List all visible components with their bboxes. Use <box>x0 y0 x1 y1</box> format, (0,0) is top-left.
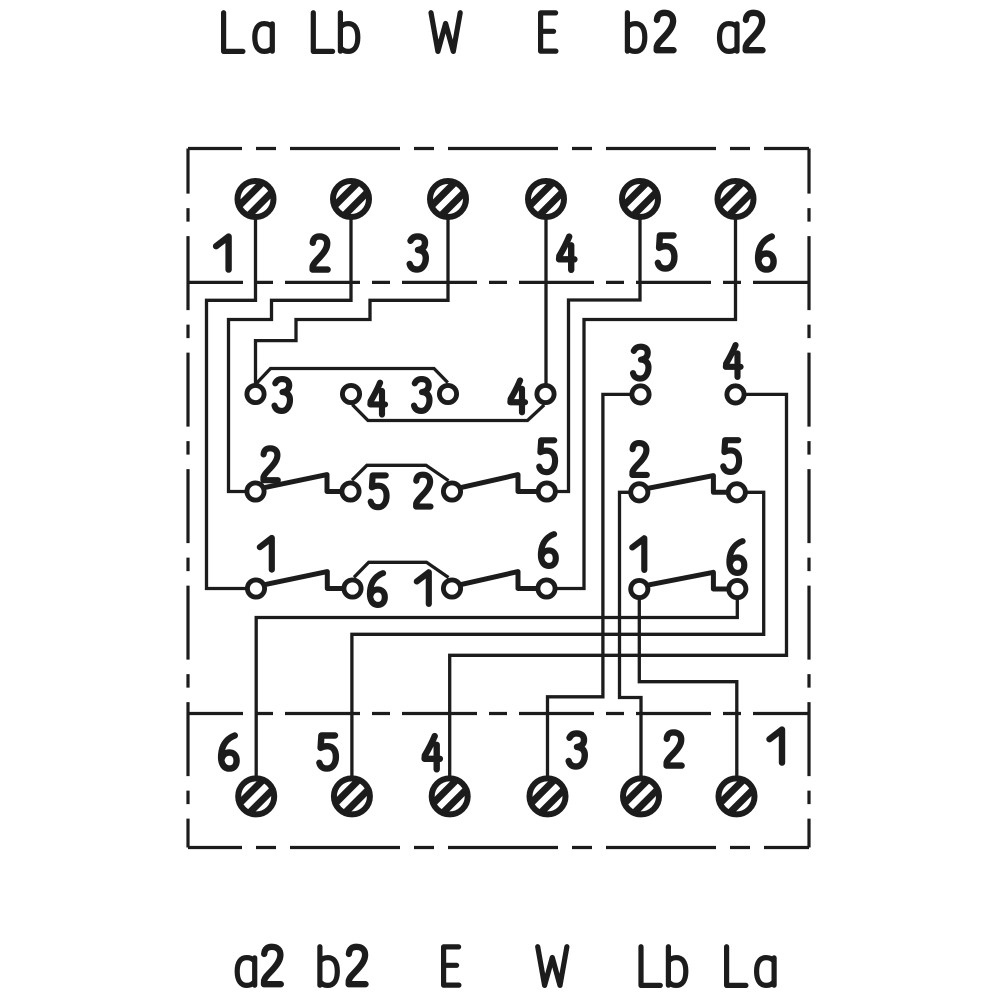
label net a2 bottom <box>237 947 281 986</box>
terminal 3 top <box>430 181 466 217</box>
label net Lb top <box>313 13 357 52</box>
contact L32 <box>344 580 361 597</box>
wire contact R4 to bottom terminal 4 <box>450 394 787 776</box>
switch arm L31-L32 <box>266 572 342 589</box>
label net W top <box>431 13 460 52</box>
contact R6 <box>729 580 746 597</box>
wire contact R2 to bottom terminal 2 <box>620 492 642 776</box>
terminal 4 top <box>528 181 564 217</box>
terminal 6 bottom <box>238 778 274 814</box>
label net La bottom <box>727 947 775 986</box>
wire contact R1 to bottom terminal 1 <box>639 599 737 776</box>
wire terminal 5 to contact L24 <box>556 218 640 492</box>
switch arm R1-R6 <box>649 572 727 589</box>
contact L22 <box>342 483 359 500</box>
terminal 5 bottom <box>334 778 370 814</box>
contact L14 <box>537 385 554 402</box>
switch arm L23-L24 <box>462 475 537 492</box>
switch arm R2-R5 <box>649 476 726 493</box>
terminal 2 top <box>333 181 369 217</box>
label contact L13 value 3 <box>414 379 429 411</box>
wire contact R5 to bottom terminal 5 <box>352 492 764 776</box>
wire contact R6 to bottom terminal 6 <box>256 599 737 776</box>
label net E bottom <box>444 947 459 985</box>
label terminal 3 bottom <box>569 733 585 766</box>
label contact L23 value 2 <box>416 475 430 507</box>
contact L33 <box>443 580 460 597</box>
switch arm L33-L34 <box>462 572 536 589</box>
label terminal 4 top <box>559 237 574 270</box>
label contact L34 value 6 <box>541 534 556 566</box>
label contact R6 value 6 <box>729 541 744 573</box>
contact L24 <box>538 483 555 500</box>
contact L31 <box>247 580 264 597</box>
label contact R1 value 1 <box>632 538 644 570</box>
contact L11 <box>247 385 264 402</box>
label terminal 2 bottom <box>667 732 682 765</box>
bridge contacts L32-L33 <box>354 562 449 577</box>
label net b2 top <box>627 13 673 52</box>
label contact R3 value 3 <box>633 347 648 379</box>
label contact L24 value 5 <box>539 440 555 472</box>
enclosure outline top edge <box>188 147 809 150</box>
bridge contacts L12-L14 <box>352 405 544 421</box>
contact L12 <box>342 385 359 402</box>
label contact L31 value 1 <box>260 538 272 570</box>
label terminal 1 bottom <box>770 730 783 763</box>
label net a2 top <box>720 13 763 52</box>
label terminal 6 bottom <box>221 736 237 769</box>
wire terminal 2 to contact L21 <box>229 218 352 492</box>
label contact R4 value 4 <box>726 345 741 377</box>
label contact L32 value 6 <box>370 573 385 605</box>
wire contact R3 to bottom terminal 3 <box>548 394 631 776</box>
label terminal 1 top <box>216 237 229 270</box>
label contact L12 value 4 <box>370 383 385 415</box>
label contact L11 value 3 <box>275 379 290 411</box>
enclosure outline left edge <box>186 149 189 848</box>
enclosure outline right edge <box>807 149 810 848</box>
label contact R2 value 2 <box>632 443 646 475</box>
wire terminal 3 to contact L11 <box>256 218 449 384</box>
label net La top <box>224 13 273 52</box>
wire terminal 4 to contact L14 <box>544 218 547 384</box>
label net Lb bottom <box>641 947 686 986</box>
terminal 5 top <box>622 181 658 217</box>
bridge contacts L11-L13 <box>256 369 448 385</box>
switch arm L21-L22 <box>266 475 340 492</box>
label net W bottom <box>538 947 567 986</box>
contact R3 <box>632 386 649 403</box>
label net E top <box>541 13 556 51</box>
label contact L14 value 4 <box>510 380 525 412</box>
terminal 2 bottom <box>623 778 659 814</box>
label terminal 5 bottom <box>319 736 336 769</box>
label contact L33 value 1 <box>417 572 429 604</box>
contact R4 <box>727 386 744 403</box>
contact R1 <box>631 580 648 597</box>
label contact R5 value 5 <box>723 440 739 472</box>
contact L34 <box>538 580 555 597</box>
contact L13 <box>439 385 456 402</box>
terminal 1 top <box>238 181 274 217</box>
wire terminal 6 to contact L34 <box>556 218 735 589</box>
terminal 1 bottom <box>719 778 755 814</box>
label terminal 5 top <box>658 236 675 269</box>
label terminal 4 bottom <box>425 736 440 769</box>
contact R5 <box>728 484 745 501</box>
label terminal 3 top <box>410 236 426 269</box>
contact L23 <box>443 483 460 500</box>
top terminal strip separator <box>188 281 809 284</box>
terminal 3 bottom <box>530 778 566 814</box>
terminal 4 bottom <box>432 778 468 814</box>
terminal 6 top <box>718 181 754 217</box>
enclosure outline bottom edge <box>188 846 809 849</box>
bridge contacts L22-L23 <box>352 465 449 480</box>
bottom terminal strip separator <box>188 712 809 715</box>
label terminal 2 top <box>313 236 328 269</box>
contact L21 <box>247 483 264 500</box>
label net b2 bottom <box>320 947 366 986</box>
label contact L22 value 5 <box>371 475 387 507</box>
label contact L21 value 2 <box>263 448 277 480</box>
wire terminal 1 to contact L31 <box>207 218 256 589</box>
contact R2 <box>631 484 648 501</box>
label terminal 6 top <box>758 237 774 270</box>
